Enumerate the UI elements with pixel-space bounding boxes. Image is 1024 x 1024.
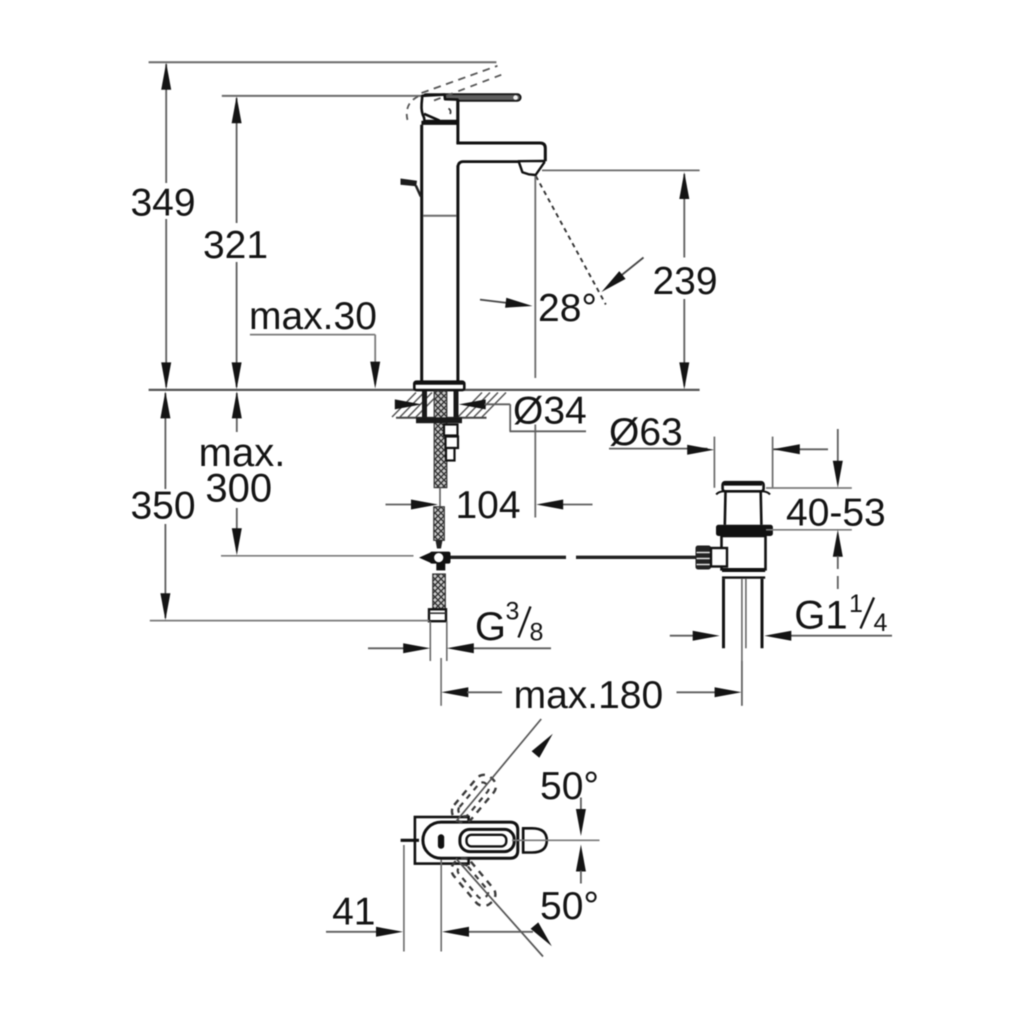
mounting washer under counter bbox=[416, 417, 462, 423]
leader arrow to stream end bbox=[602, 258, 644, 293]
drain rod knob (knurled) bbox=[696, 546, 712, 570]
faucet centerline below G3/8 bbox=[440, 658, 442, 706]
faucet handle lever bar bbox=[423, 94, 521, 101]
drain body bbox=[722, 536, 766, 569]
svg-text:G1: G1 bbox=[794, 594, 847, 638]
dimension max.300 vertical line with arrows bbox=[232, 391, 242, 555]
dimension 104 arrows bbox=[386, 500, 593, 510]
top view: escutcheon square plate bbox=[415, 817, 469, 864]
top view: handle slot bbox=[467, 835, 507, 847]
svg-text:350: 350 bbox=[130, 485, 195, 528]
spout aerator outlet wedge bbox=[519, 161, 545, 175]
vertical reference line through spout outlet bbox=[534, 176, 536, 518]
svg-text:8: 8 bbox=[530, 619, 544, 647]
label G3/8 bbox=[475, 598, 544, 650]
top view: dashed handle rotated down 50deg bbox=[447, 854, 499, 910]
pop-up rod lever on body left bbox=[401, 179, 421, 197]
mounting nut pieces bbox=[444, 425, 458, 461]
threaded shank left wall bbox=[422, 391, 427, 417]
G3/8 dimension arrows bbox=[368, 643, 551, 653]
svg-text:G: G bbox=[475, 605, 506, 649]
rod core thin segment bbox=[439, 488, 441, 507]
top view: dashed handle rotated up 50deg bbox=[448, 771, 500, 827]
40-53 extension lines bbox=[766, 488, 852, 530]
41 extension lines bbox=[404, 845, 441, 952]
flexible hose below ball joint bbox=[433, 563, 446, 610]
top view: cartridge mark bbox=[438, 834, 444, 849]
dimension 321 vertical line with arrows bbox=[232, 96, 242, 389]
converging arrows at centerline right bbox=[576, 798, 586, 884]
G3/8 dimension extension lines bbox=[430, 621, 447, 661]
drain flange neck bbox=[725, 491, 762, 525]
50deg axis line lower with arrow bbox=[456, 859, 552, 957]
max.180 right extension line bbox=[741, 661, 743, 706]
drain inner rod lines bbox=[742, 579, 746, 706]
svg-text:Ø63: Ø63 bbox=[609, 411, 683, 454]
50deg axis line upper with arrow bbox=[456, 719, 553, 822]
faucet body right edge lower bbox=[456, 166, 459, 382]
svg-text:50°: 50° bbox=[540, 885, 599, 928]
body seam line bbox=[423, 215, 456, 217]
leader arrow to 28 deg vertical bbox=[480, 298, 533, 308]
drain flange cap bbox=[716, 482, 770, 494]
top view: pop-up rod stub bbox=[401, 839, 419, 842]
label G1 1/4 bbox=[794, 590, 887, 638]
countertop cross-section hatching right bbox=[458, 393, 506, 418]
dimension 40-53 vertical with outside arrows bbox=[833, 429, 843, 590]
mounting plane (countertop line) bbox=[149, 389, 700, 391]
phantom raised handle (dashed) bbox=[422, 66, 503, 101]
svg-text:40-53: 40-53 bbox=[786, 492, 886, 535]
drain coupling rings bbox=[722, 571, 765, 578]
spout underside bbox=[458, 162, 519, 167]
dimension 349 vertical line with arrows bbox=[161, 63, 171, 390]
svg-text:300: 300 bbox=[205, 467, 272, 511]
dimension G1 1/4 arrows bbox=[670, 631, 892, 641]
countertop cross-section hatching left bbox=[392, 393, 440, 418]
water stream dashed line at 28 deg bbox=[536, 176, 606, 305]
svg-text:349: 349 bbox=[130, 182, 195, 225]
svg-text:239: 239 bbox=[652, 260, 717, 303]
top view: spout tip bbox=[523, 828, 547, 852]
drain tail pipe walls bbox=[724, 579, 763, 649]
countertop bottom line bbox=[396, 417, 487, 419]
faucet body right edge upper bbox=[456, 100, 459, 144]
drain rod connector piece bbox=[711, 548, 727, 567]
drain flange rim (dark) bbox=[716, 525, 773, 536]
Ø63 extension lines bbox=[714, 437, 772, 488]
pop-up rod ball joint bbox=[419, 552, 451, 564]
threaded shank right wall bbox=[454, 391, 459, 417]
svg-text:50°: 50° bbox=[540, 765, 599, 808]
top view: faucet body capsule bbox=[423, 822, 518, 858]
G3/8 connector bbox=[429, 609, 446, 621]
faucet handle body (pivot) bbox=[422, 95, 458, 121]
extension line at spout outlet level bbox=[542, 169, 700, 171]
spout top and right edge bbox=[456, 143, 545, 161]
svg-text:321: 321 bbox=[203, 224, 268, 267]
faucet body left edge bbox=[420, 125, 423, 382]
handle swing arc (dashed) bbox=[407, 97, 418, 124]
top reference line (handle top level) bbox=[149, 61, 497, 63]
svg-text:104: 104 bbox=[455, 484, 520, 527]
dimension 350 vertical line with arrows bbox=[160, 391, 170, 620]
threaded rod upper (hatched) bbox=[434, 391, 447, 488]
svg-text:41: 41 bbox=[332, 891, 375, 934]
top view: handle outline bbox=[460, 829, 514, 851]
lower-left extension line (350 bottom) bbox=[150, 620, 429, 622]
svg-text:max.180: max.180 bbox=[514, 674, 664, 717]
top view: centerline bbox=[512, 839, 600, 841]
horizontal pop-up rod to drain bbox=[451, 556, 696, 559]
faucet body top edge bbox=[421, 121, 458, 125]
dimension 41 with outside arrows bbox=[326, 927, 533, 937]
Ø34 dimension arrows at shank bbox=[395, 399, 586, 431]
dimension max.180 bbox=[441, 687, 741, 697]
svg-text:max.30: max.30 bbox=[249, 295, 377, 338]
faucet base plate bbox=[414, 382, 464, 390]
svg-text:3: 3 bbox=[506, 598, 520, 626]
dimension 239 vertical line with arrows bbox=[679, 172, 689, 389]
svg-text:4: 4 bbox=[874, 609, 888, 637]
svg-text:1: 1 bbox=[849, 590, 863, 618]
extension line at handle lever level (321) bbox=[222, 95, 422, 97]
threaded rod lower (hatched) bbox=[434, 507, 445, 549]
extension line for max.300 (hose level) bbox=[221, 555, 414, 557]
svg-text:28°: 28° bbox=[538, 287, 597, 330]
svg-text:Ø34: Ø34 bbox=[513, 390, 587, 433]
